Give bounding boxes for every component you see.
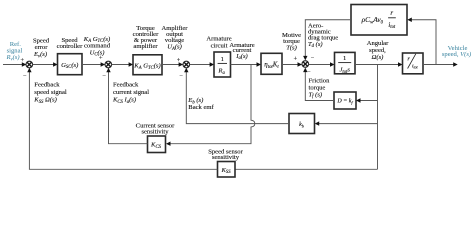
svg-text:T(s): T(s) xyxy=(286,44,297,51)
block aero drag rho C_w A v_0 r/i_tot xyxy=(351,5,407,36)
wire speed feedback line right segment into K_SS xyxy=(235,168,378,170)
label Speed error E_v(s) xyxy=(33,37,50,59)
wire G_SC to J2 xyxy=(82,62,105,66)
svg-text:+: + xyxy=(99,54,103,61)
svg-text:−: − xyxy=(311,55,315,62)
svg-text:−: − xyxy=(179,73,183,80)
svg-text:Ω(s): Ω(s) xyxy=(372,54,384,61)
svg-text:+: + xyxy=(294,55,298,62)
svg-text:Friction: Friction xyxy=(309,77,331,84)
svg-text:drag torque: drag torque xyxy=(308,34,338,41)
wire angular speed branch down (friction, back emf, speed sensor trunk) xyxy=(377,65,379,170)
wire 1/Js to r/i block xyxy=(355,62,403,66)
block G_SC(s) speed controller xyxy=(58,54,83,75)
label Amplifier output voltage U_A(s) xyxy=(161,25,188,52)
summing junction J4 xyxy=(294,55,315,76)
svg-text:Angular: Angular xyxy=(367,40,389,47)
label Speed sensor sensitivity xyxy=(208,148,243,161)
svg-text:r: r xyxy=(407,56,410,63)
label Torque controller & power amplifier xyxy=(133,25,159,50)
block 1/(J_tot s) xyxy=(335,52,356,75)
label Feedback speed signal K_SS Omega(s) xyxy=(33,82,67,106)
svg-text:Feedback: Feedback xyxy=(113,82,139,89)
node label Ref. signal R_v(s) xyxy=(5,41,22,62)
wire K_A G_TC to J3 xyxy=(162,62,183,66)
wire current feedback branch with hop over back emf line xyxy=(166,65,255,146)
label Aero-dynamic drag torque T_d(s) xyxy=(308,22,338,49)
block K_A G_TC(s) torque controller & power amplifier xyxy=(133,55,162,75)
svg-text:error: error xyxy=(35,44,49,51)
block r/i_tot xyxy=(403,53,424,74)
svg-text:sensitivity: sensitivity xyxy=(212,154,240,161)
wire J2 to K_A G_TC xyxy=(112,62,134,66)
label K_A G_TC(s) command U_C(s) xyxy=(83,36,111,58)
label Angular speed Omega(s) xyxy=(367,40,389,61)
block eta_tot K_t xyxy=(261,53,282,74)
svg-text:1: 1 xyxy=(343,55,346,62)
label E_b(s) Back emf xyxy=(187,97,214,111)
summing junction J2 xyxy=(99,54,112,79)
label Feedback current signal K_CS I_a(s) xyxy=(112,82,149,106)
wire input R(s) xyxy=(3,62,26,66)
svg-text:torque: torque xyxy=(309,84,326,91)
label Armature circuit xyxy=(206,36,231,50)
svg-text:−: − xyxy=(102,73,106,80)
block D = k_f friction xyxy=(334,92,356,109)
block K_SS speed sensor xyxy=(218,162,236,178)
svg-text:+: + xyxy=(20,57,24,64)
svg-text:circuit: circuit xyxy=(211,42,228,49)
wire 1/R_a to eta K block with current branch node xyxy=(231,62,262,66)
wire eta K to J4 xyxy=(282,62,302,66)
svg-text:−: − xyxy=(23,73,27,80)
svg-text:current signal: current signal xyxy=(113,89,149,96)
wire aero block output down into J4 top xyxy=(303,20,351,61)
node label Vehicle speed V(s) xyxy=(442,45,471,58)
label Motive torque T(s) xyxy=(282,32,301,52)
label Armature current I_a(s) xyxy=(229,42,254,61)
wire speed feedback left segment and up into J1 bottom xyxy=(27,68,217,170)
summing junction J1 xyxy=(20,57,32,79)
wire V(s) up to aero drag block input xyxy=(407,18,436,65)
wire friction tap into D block xyxy=(356,98,378,102)
svg-text:+: + xyxy=(177,57,181,64)
svg-text:speed signal: speed signal xyxy=(34,89,67,96)
wire J3 to 1/R_a xyxy=(190,62,215,66)
svg-text:controller: controller xyxy=(57,43,83,50)
wire k_b output left and up into J3 bottom xyxy=(184,68,289,124)
svg-text:Feedback: Feedback xyxy=(34,82,60,89)
svg-text:sensitivity: sensitivity xyxy=(141,128,169,135)
wire J4 to 1/Js xyxy=(309,62,335,66)
wire J1 to G_SC xyxy=(33,62,58,66)
wire D block output up into J4 bottom xyxy=(303,68,334,101)
svg-text:−: − xyxy=(307,69,311,76)
label Speed controller xyxy=(57,37,83,50)
label Current sensor sensitivity xyxy=(136,122,175,135)
svg-text:ηtotKt: ηtotKt xyxy=(264,61,279,70)
svg-text:r: r xyxy=(390,9,393,17)
block K_CS current sensor xyxy=(148,136,166,153)
label Friction torque T_f(s) xyxy=(309,77,331,99)
svg-text:1: 1 xyxy=(221,56,224,63)
wire output V(s) with branch up to aero block xyxy=(423,62,458,66)
block 1/R_a armature circuit xyxy=(214,52,231,77)
wire back emf tap into k_b block xyxy=(315,121,378,125)
summing junction J3 xyxy=(177,57,190,80)
block k_b back emf constant xyxy=(289,114,315,134)
svg-text:Back emf: Back emf xyxy=(188,104,214,111)
svg-text:D = kf: D = kf xyxy=(336,99,353,105)
svg-text:speed,: speed, xyxy=(369,47,386,54)
wire K_CS output left and up into J2 bottom xyxy=(106,68,147,144)
svg-text:kb: kb xyxy=(299,122,305,128)
svg-text:command: command xyxy=(84,42,111,49)
svg-text:amplifier: amplifier xyxy=(133,43,158,50)
svg-text:speed, V(s): speed, V(s) xyxy=(442,51,471,58)
